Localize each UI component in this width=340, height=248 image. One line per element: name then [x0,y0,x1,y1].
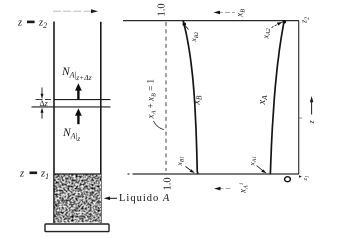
svg-text:z: z [307,120,316,125]
svg-text:z: z [19,169,24,180]
svg-text:xB2: xB2 [189,32,200,43]
svg-text:xA: xA [257,95,269,106]
svg-text:NA|z+Δz: NA|z+Δz [61,66,92,82]
svg-text:xA + xB = 1: xA + xB = 1 [146,78,158,119]
svg-text:Liquido A: Liquido A [119,193,170,204]
svg-text:xB: xB [235,9,247,18]
svg-text:z2: z2 [300,17,311,24]
svg-text:z1: z1 [40,169,49,181]
svg-text:z1: z1 [302,175,311,181]
svg-text:1.0: 1.0 [157,3,168,16]
svg-text:Δz: Δz [40,99,49,108]
svg-text:xA2: xA2 [262,28,273,39]
svg-text:1.0: 1.0 [163,177,174,190]
svg-text:xA1: xA1 [248,156,259,167]
svg-text:xB1: xB1 [175,156,186,167]
svg-text:z: z [17,18,22,29]
svg-text:NA|z: NA|z [62,127,80,143]
svg-text:z2: z2 [38,18,47,30]
svg-text:xA1: xA1 [238,182,250,194]
svg-text:xB: xB [192,95,204,106]
